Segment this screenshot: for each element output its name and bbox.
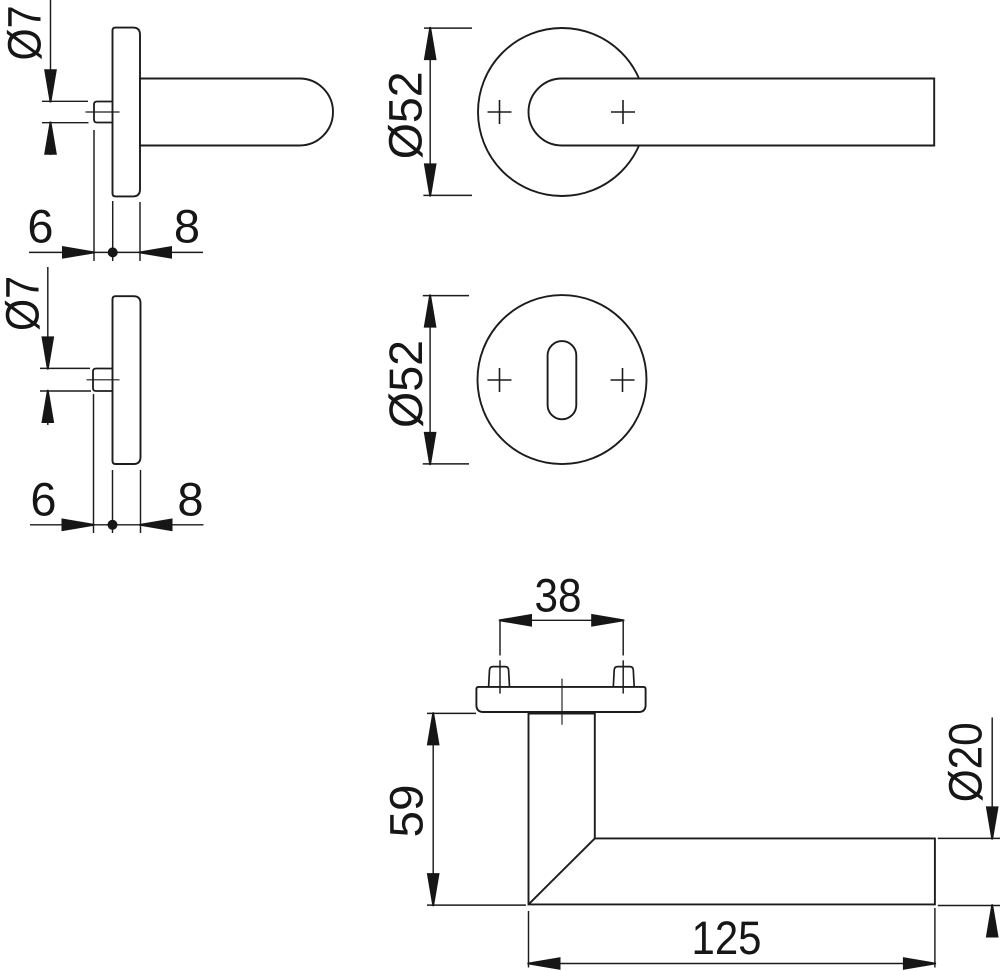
view5 dim 38 right arrow bbox=[591, 614, 624, 627]
view1 spindle centreline bbox=[86, 111, 120, 113]
view5 dim 59 line bbox=[432, 713, 434, 905]
view2 dim Ø7 lower arrow bbox=[41, 390, 54, 423]
view5 dim 125 left arrow bbox=[527, 957, 560, 970]
view2 spindle centreline bbox=[87, 379, 120, 381]
view1 dim 8 arrow bbox=[139, 246, 172, 259]
view5 dim Ø20 line lower bbox=[991, 906, 993, 936]
view2 ext line rose back bbox=[140, 470, 142, 533]
svg-text:Ø7: Ø7 bbox=[0, 276, 49, 331]
svg-text:38: 38 bbox=[535, 569, 582, 622]
view5 dim 38 extension left (lower, through screw) bbox=[499, 660, 501, 693]
view2 dim Ø7 extension top bbox=[40, 367, 90, 369]
svg-text:8: 8 bbox=[174, 200, 200, 253]
view4 dim Ø52 extension bottom bbox=[423, 463, 469, 465]
view4 fixing centre mark right bbox=[611, 379, 635, 381]
view1 dim Ø7 extension bottom bbox=[42, 122, 89, 124]
view5 dim 38 extension right (lower, through screw) bbox=[622, 660, 624, 693]
view4 keyhole slot bbox=[548, 341, 577, 419]
svg-text:Ø20: Ø20 bbox=[939, 722, 992, 802]
view5 dim 125 line bbox=[529, 963, 935, 965]
view2 dim line 6/8 bbox=[30, 524, 204, 526]
view2 dim 8 arrow bbox=[139, 518, 172, 531]
view5 dim Ø20 line upper bbox=[991, 718, 993, 839]
view1 ext line spindle face bbox=[93, 130, 95, 261]
view4 dim Ø52 line bbox=[429, 296, 431, 464]
svg-text:59: 59 bbox=[380, 785, 433, 838]
view5 dim 125 extension left bbox=[528, 911, 530, 968]
view2 dim 6 arrow bbox=[62, 518, 95, 531]
svg-text:Ø7: Ø7 bbox=[0, 6, 51, 61]
view5 left fixing screw bbox=[489, 667, 510, 687]
view3 dim Ø52 extension top bbox=[424, 27, 472, 29]
view3 dim Ø52 top arrow bbox=[424, 27, 437, 60]
view1 dim Ø7 line lower bbox=[50, 123, 52, 155]
view5 dim 59 extension top bbox=[427, 712, 476, 714]
view5 dim 38 line bbox=[500, 619, 623, 621]
view4 dim Ø52 extension top bbox=[423, 295, 469, 297]
view1 dim Ø7 upper arrow bbox=[44, 69, 57, 102]
view3 fixing centre mark right bbox=[611, 111, 635, 113]
view5 rose (plan) bbox=[476, 687, 645, 712]
view1 dim Ø7 line upper bbox=[50, 0, 52, 101]
view5 neck and lever grip (plan) bbox=[529, 714, 935, 905]
view4 fixing centre mark left bbox=[488, 379, 512, 381]
view2 ext line rose front bbox=[112, 470, 114, 533]
svg-text:125: 125 bbox=[692, 911, 762, 964]
view1 lever grip bbox=[140, 79, 333, 146]
view5 dim Ø20 upper arrow bbox=[986, 806, 999, 839]
view3 lever (front) bbox=[529, 79, 935, 146]
view5 dim Ø20 lower arrow bbox=[986, 904, 999, 937]
svg-text:Ø52: Ø52 bbox=[379, 340, 432, 428]
view2 dim chain dot bbox=[108, 520, 118, 530]
view5 right fixing screw bbox=[613, 667, 634, 687]
view3 dim Ø52 line bbox=[429, 28, 431, 195]
view1 dim 6 arrow bbox=[62, 246, 95, 259]
view1 dim Ø7 extension top bbox=[42, 100, 88, 102]
view1 ext line rose back bbox=[139, 202, 141, 261]
view5 spindle axis centreline bbox=[561, 679, 563, 725]
svg-text:8: 8 bbox=[177, 473, 203, 526]
svg-text:Ø52: Ø52 bbox=[379, 71, 432, 159]
view3 rose circle Ø52 bbox=[478, 28, 646, 196]
view3 fixing centre mark left bbox=[488, 111, 512, 113]
view5 dim 125 extension right bbox=[934, 908, 936, 968]
view1 ext line rose front bbox=[112, 201, 114, 261]
svg-text:6: 6 bbox=[27, 200, 53, 253]
view2 ext line spindle face bbox=[93, 394, 95, 533]
view2 dim Ø7 line upper bbox=[47, 267, 49, 368]
view4 dim Ø52 top arrow bbox=[424, 294, 437, 327]
view4 rose circle Ø52 bbox=[478, 295, 647, 464]
view5 dim Ø20 extension top bbox=[938, 837, 1000, 839]
view1 rose (side profile) bbox=[113, 28, 141, 197]
view5 dim 59 top arrow bbox=[427, 712, 440, 745]
view1 dim Ø7 lower arrow bbox=[44, 122, 57, 155]
view1 spindle stub bbox=[94, 102, 114, 123]
view5 dim 38 left arrow bbox=[499, 614, 532, 627]
view4 dim Ø52 bottom arrow bbox=[424, 432, 437, 465]
view2 dim Ø7 line lower bbox=[47, 391, 49, 425]
view2 dim Ø7 upper arrow bbox=[41, 336, 54, 369]
view5 dim 125 right arrow bbox=[903, 957, 936, 970]
svg-text:6: 6 bbox=[30, 473, 56, 526]
view2 dim Ø7 extension bottom bbox=[40, 390, 91, 392]
view5 dim 59 extension bottom bbox=[427, 904, 526, 906]
view2 spindle stub bbox=[93, 369, 114, 392]
view5 dim 38 extension left (upper) bbox=[499, 620, 501, 655]
view5 dim 38 extension right (upper) bbox=[622, 620, 624, 655]
view3 dim Ø52 bottom arrow bbox=[424, 163, 437, 196]
view1 dim line 6/8 bbox=[29, 251, 203, 253]
view5 dim 59 bottom arrow bbox=[427, 873, 440, 906]
view5 dim Ø20 extension bottom bbox=[938, 905, 1000, 907]
view3 dim Ø52 extension bottom bbox=[423, 194, 472, 196]
view2 rose (side profile) bbox=[113, 296, 141, 464]
view1 dim chain dot bbox=[108, 247, 118, 257]
view5 mitre joint line bbox=[529, 838, 595, 904]
